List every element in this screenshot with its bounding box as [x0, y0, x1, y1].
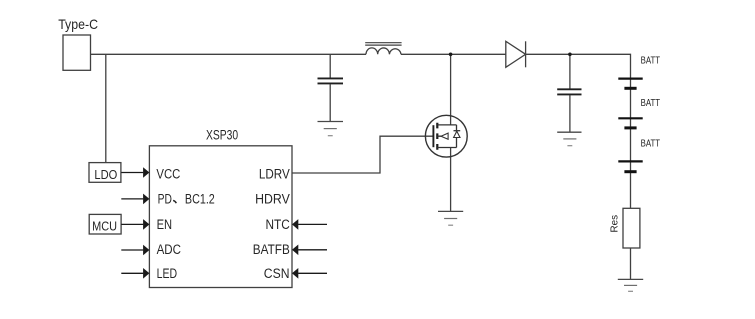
svg-text:VCC: VCC: [156, 167, 180, 182]
svg-text:CSN: CSN: [264, 266, 290, 281]
svg-text:BC1.2: BC1.2: [185, 192, 215, 207]
svg-text:PD: PD: [158, 192, 172, 207]
svg-text:MCU: MCU: [92, 218, 117, 233]
svg-text:ADC: ADC: [157, 242, 182, 257]
svg-text:BATFB: BATFB: [253, 242, 290, 257]
svg-text:BATT: BATT: [641, 56, 661, 67]
svg-text:EN: EN: [157, 217, 173, 232]
svg-text:XSP30: XSP30: [206, 128, 238, 143]
svg-text:LED: LED: [157, 266, 178, 281]
svg-text:LDRV: LDRV: [259, 167, 290, 182]
svg-text:Res: Res: [610, 215, 621, 233]
svg-text:BATT: BATT: [641, 98, 661, 109]
svg-text:NTC: NTC: [266, 217, 291, 232]
svg-text:LDO: LDO: [94, 167, 117, 182]
svg-text:Type-C: Type-C: [58, 16, 98, 32]
svg-text:HDRV: HDRV: [255, 192, 290, 207]
svg-text:BATT: BATT: [641, 139, 661, 150]
